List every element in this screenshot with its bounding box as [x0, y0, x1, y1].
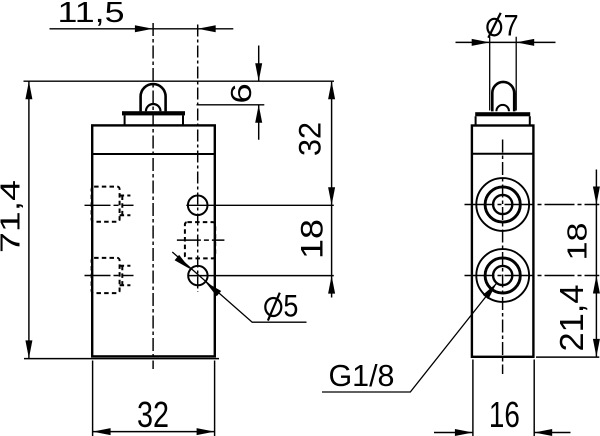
- centerline port lower-left: [85, 275, 134, 277]
- svg-text:71,4: 71,4: [0, 180, 26, 253]
- extension line bottom (71,4): [24, 358, 219, 360]
- dim 16 bottom (side view): [434, 432, 571, 434]
- svg-text:32: 32: [292, 122, 328, 156]
- dim 32 arrows: [328, 81, 335, 99]
- dim 71,4 line: [28, 81, 30, 358]
- svg-text:18: 18: [294, 219, 330, 259]
- dim 32 bottom (front view): [93, 431, 215, 433]
- centerline vertical holes (front view): [197, 25, 199, 293]
- hidden port thread upper-left (dashed): [92, 187, 131, 222]
- hole circle upper (front view): [188, 196, 208, 216]
- centerline vertical main (front view): [152, 23, 154, 369]
- base block sides (side view): [476, 116, 530, 125]
- centerline upper port horizontal (side view, ext to 18 dim): [465, 204, 600, 206]
- svg-text:G1/8: G1/8: [329, 358, 395, 393]
- dia symbol of dia7: [487, 13, 501, 38]
- dim 6 line segments: [258, 46, 260, 140]
- leader G1/8 line: [322, 283, 497, 392]
- valve body (side view): [472, 126, 534, 357]
- svg-text:32: 32: [137, 394, 169, 435]
- dim column 32/18 (front view right): [331, 81, 333, 297]
- ext lines 32 bottom: [93, 361, 215, 436]
- extension line lower hole to right dims: [188, 275, 334, 277]
- hidden port thread lower-left (dashed): [92, 258, 131, 293]
- flange bar (side view): [475, 112, 530, 116]
- svg-text:11,5: 11,5: [58, 0, 125, 29]
- plunger stem lines (side view, also ext lines for dia7): [490, 37, 517, 111]
- dim 71,4 arrows: [25, 81, 32, 99]
- roller arc (side view): [496, 105, 509, 111]
- cap joint line (side view): [472, 153, 533, 155]
- dim dia7 arrows: [472, 39, 490, 46]
- centerline port middle: [177, 239, 225, 241]
- svg-text:6: 6: [225, 83, 258, 103]
- base block sides (front view): [125, 115, 183, 125]
- plunger dome (side view): [492, 82, 514, 111]
- dim 11,5 arrows: [135, 25, 153, 32]
- svg-text:18: 18: [562, 223, 593, 261]
- dim 18 bottom arrow: [328, 276, 335, 294]
- port lower (side view) concentric circles: [476, 249, 529, 302]
- ext lines 16 bottom: [473, 360, 534, 436]
- dia symbol of dia5: [265, 293, 281, 321]
- dim dia7 line: [456, 41, 556, 43]
- cap joint line (front view): [92, 153, 214, 155]
- centerline vertical (side view): [502, 140, 504, 375]
- roller arc (front view): [146, 104, 161, 111]
- extension line upper hole to right dims: [186, 204, 333, 206]
- leader dia5 arrows: [205, 282, 221, 296]
- svg-text:16: 16: [489, 394, 520, 435]
- valve body (front view): [92, 125, 215, 356]
- flange bar (front view): [122, 111, 185, 115]
- svg-text:5: 5: [283, 288, 298, 324]
- hole circle lower (front view): [188, 266, 207, 285]
- dim 11,5 line: [50, 28, 234, 30]
- centerline port upper-left: [85, 204, 134, 206]
- svg-text:21,4: 21,4: [553, 285, 590, 352]
- ext line body bottom (side view): [536, 356, 599, 358]
- dim 16 arrows: [455, 429, 473, 436]
- port upper (side view) concentric circles: [476, 178, 529, 231]
- dim column 18/21,4 (side view right): [595, 170, 597, 357]
- dim 6 extension line: [197, 104, 265, 106]
- dim 32 bottom arrows: [93, 428, 111, 435]
- centerline lower port horizontal (side view, ext to 21,4 dim): [465, 275, 600, 277]
- hidden port thread middle-right (dashed): [185, 222, 215, 258]
- plunger bracket dome (front view): [141, 84, 166, 111]
- top reference line y=81: [24, 80, 335, 82]
- svg-text:7: 7: [504, 9, 519, 42]
- dim 6 arrows: [255, 63, 262, 81]
- leader dia5 line: [172, 252, 306, 322]
- dim arrows right column: [593, 187, 600, 205]
- leader G1/8 arrow: [483, 283, 497, 299]
